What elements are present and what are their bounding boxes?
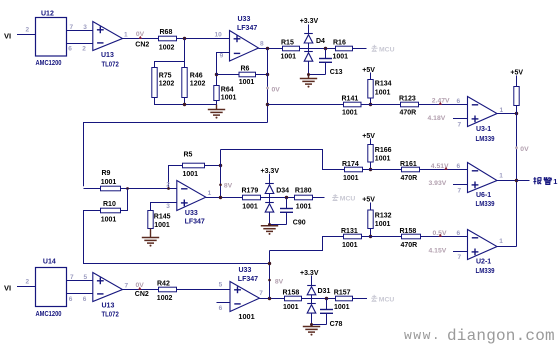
- svg-text:R161: R161: [400, 161, 417, 168]
- svg-text:MCU: MCU: [379, 46, 395, 53]
- op-amp U33 LF347 second: [177, 181, 206, 211]
- wire node to R141: [266, 103, 269, 106]
- resistor pull-up: [514, 87, 519, 106]
- svg-text:1001: 1001: [334, 304, 350, 311]
- wire stub pin7 4.15V: [453, 251, 468, 253]
- chip U12 AMC1200: [36, 18, 67, 57]
- wire stub pin7 4.18V: [453, 118, 468, 120]
- resistor R6: [239, 72, 256, 77]
- resistor R157: [336, 296, 353, 301]
- diode D31 upper: [307, 286, 316, 295]
- svg-text:R15: R15: [281, 39, 294, 46]
- svg-text:U3-1: U3-1: [476, 126, 491, 133]
- svg-text:MCU: MCU: [379, 296, 395, 303]
- svg-text:D4: D4: [316, 38, 325, 45]
- svg-text:6: 6: [83, 296, 87, 303]
- resistor R158 bottom: [285, 296, 302, 301]
- svg-text:1001: 1001: [154, 222, 170, 229]
- svg-text:LF347: LF347: [238, 276, 258, 283]
- wire junction to R161: [363, 169, 402, 171]
- svg-text:VI: VI: [4, 32, 11, 41]
- svg-text:diangon.com: diangon.com: [447, 327, 555, 345]
- svg-text:R179: R179: [242, 188, 259, 195]
- svg-text:5: 5: [219, 281, 223, 288]
- wire U12 pin6 to U13 pin2: [67, 43, 94, 45]
- wire U3-1 output: [497, 113, 517, 115]
- resistor R180: [295, 195, 313, 200]
- svg-text:+5V: +5V: [362, 133, 375, 140]
- svg-text:CN2: CN2: [135, 41, 149, 48]
- svg-text:1001: 1001: [242, 203, 258, 210]
- wire R158 to clamp node: [302, 298, 336, 300]
- svg-text:2: 2: [26, 26, 30, 33]
- wire R10 right up to R9 node: [121, 189, 128, 211]
- wire stub pin7 3.93V: [453, 184, 468, 186]
- svg-text:10: 10: [215, 32, 223, 39]
- svg-text:AMC1200: AMC1200: [36, 311, 62, 318]
- svg-text:3: 3: [166, 203, 170, 210]
- wire pin6 stub: [217, 302, 231, 304]
- svg-text:7: 7: [458, 187, 462, 194]
- svg-text:470R: 470R: [401, 175, 418, 182]
- svg-text:R158: R158: [400, 228, 417, 235]
- label to-MCU row2: [332, 194, 338, 200]
- wire U13 output to R42: [123, 289, 159, 291]
- resistor R158 470R: [402, 234, 421, 239]
- diode D34 upper: [265, 184, 274, 194]
- diode D4 lower: [304, 52, 313, 62]
- junction node A: [183, 37, 186, 40]
- svg-text:1001: 1001: [221, 95, 237, 102]
- wire from bottom stage to row3: [270, 237, 344, 251]
- wire pull-up to output: [516, 106, 518, 114]
- svg-text:LM339: LM339: [476, 268, 495, 275]
- svg-text:1001: 1001: [183, 171, 199, 178]
- wire R158 to U2-1 pin6: [421, 236, 468, 238]
- wire to alarm output: [517, 180, 530, 182]
- svg-text:7: 7: [458, 254, 462, 261]
- svg-text:7: 7: [70, 24, 74, 31]
- svg-text:D34: D34: [276, 187, 289, 194]
- capacitor C78: [325, 297, 328, 300]
- wire R179 to clamp node: [261, 197, 295, 199]
- svg-text:1: 1: [500, 107, 504, 114]
- wire R6 to output node: [256, 74, 268, 76]
- svg-text:1001: 1001: [343, 175, 359, 182]
- svg-text:R157: R157: [334, 289, 351, 296]
- wire down to R46: [184, 39, 186, 68]
- svg-text:U13: U13: [101, 52, 114, 59]
- svg-text:R16: R16: [333, 39, 346, 46]
- comparator U2-1 LM339: [468, 230, 498, 260]
- wire U33 output to R179: [206, 197, 243, 199]
- wire R166 to row: [370, 162, 372, 170]
- wire R68 to U33 pin10: [177, 38, 230, 40]
- svg-text:6: 6: [457, 230, 461, 237]
- svg-text:470R: 470R: [401, 242, 418, 249]
- svg-text:R141: R141: [342, 96, 359, 103]
- svg-text:R68: R68: [160, 29, 173, 36]
- op-amp U13 TL072 top: [93, 22, 123, 51]
- wire junction to R123: [361, 104, 401, 106]
- svg-text:4.15V: 4.15V: [429, 247, 447, 254]
- wire U33 pin9 stub: [217, 53, 230, 75]
- svg-text:R132: R132: [375, 212, 392, 219]
- resistor R134: [368, 80, 373, 99]
- wire to comparator row2 dogleg: [221, 150, 345, 170]
- svg-text:+3.3V: +3.3V: [300, 18, 319, 25]
- svg-text:1001: 1001: [375, 156, 391, 163]
- wire R75 branch: [155, 62, 185, 68]
- wire R42 to U33 pin5: [177, 289, 231, 291]
- op-amp U33 LF347 fourth: [230, 282, 259, 312]
- svg-text:3.93V: 3.93V: [429, 180, 447, 187]
- wire diode to ground: [269, 212, 271, 224]
- svg-text:LM339: LM339: [476, 201, 495, 208]
- wire R10 left down to bottom feedback: [84, 211, 270, 264]
- wire top horizontal feedback from 0V node: [84, 123, 268, 187]
- svg-text:2: 2: [166, 182, 170, 189]
- svg-text:LF347: LF347: [237, 25, 257, 32]
- wire R9 left: [84, 188, 101, 190]
- resistor R16: [336, 46, 353, 51]
- svg-text:8: 8: [260, 41, 264, 48]
- resistor R64: [214, 86, 219, 101]
- resistor R141: [344, 102, 362, 107]
- svg-text:R134: R134: [375, 81, 392, 88]
- svg-text:1001: 1001: [101, 216, 117, 223]
- svg-text:R10: R10: [103, 201, 116, 208]
- wire R9 right to minus input: [121, 188, 177, 190]
- svg-text:470R: 470R: [400, 110, 417, 117]
- svg-text:U6-1: U6-1: [476, 192, 491, 199]
- svg-text:6: 6: [457, 98, 461, 105]
- ground: [150, 229, 152, 238]
- wire U14 pin7 to U13 pin5: [67, 280, 94, 282]
- ground: [269, 225, 271, 226]
- svg-text:U2-1: U2-1: [476, 259, 491, 266]
- label to-MCU row3: [371, 295, 377, 301]
- svg-text:1002: 1002: [157, 295, 173, 302]
- svg-text:U12: U12: [41, 10, 54, 17]
- wire R5 to output node: [205, 165, 221, 167]
- svg-text:+3.3V: +3.3V: [300, 270, 319, 277]
- wire junction to R158: [362, 236, 402, 238]
- svg-text:1001: 1001: [239, 79, 255, 86]
- svg-text:7: 7: [125, 282, 129, 289]
- svg-text:U13: U13: [102, 302, 115, 309]
- comparator U6-1 LM339: [468, 163, 498, 193]
- diode D34 lower: [265, 203, 274, 213]
- resistor R75: [152, 68, 157, 98]
- resistor R123: [401, 102, 419, 107]
- svg-text:6: 6: [457, 163, 461, 170]
- net 0V vertical from U33 output: [267, 49, 269, 123]
- svg-text:C78: C78: [330, 321, 343, 328]
- svg-text:7: 7: [259, 290, 263, 297]
- ground: [308, 75, 310, 79]
- wire R134 to row: [370, 98, 372, 105]
- resistor R5 feedback: [169, 166, 183, 189]
- label alarm BaoJing1: [533, 177, 551, 184]
- svg-text:3: 3: [83, 24, 87, 31]
- svg-text:1001: 1001: [283, 304, 299, 311]
- svg-text:LM339: LM339: [476, 136, 495, 143]
- svg-text:MCU: MCU: [340, 196, 356, 203]
- wire to MCU row3: [353, 298, 368, 300]
- svg-text:1: 1: [499, 238, 503, 245]
- svg-text:R42: R42: [157, 280, 170, 287]
- svg-text:LF347: LF347: [185, 219, 205, 226]
- svg-text:R131: R131: [341, 228, 358, 235]
- wire resistor bottoms to ground rail: [155, 98, 217, 105]
- wire to MCU row2: [313, 197, 325, 199]
- svg-text:U33: U33: [238, 16, 251, 23]
- op-amp U13 TL072 bottom: [93, 273, 123, 302]
- wire diode to ground: [311, 313, 313, 324]
- wire to R6: [217, 74, 240, 76]
- resistor R166: [368, 145, 373, 163]
- resistor R46: [182, 68, 187, 98]
- resistor R68: [159, 36, 177, 41]
- svg-text:U14: U14: [43, 258, 56, 265]
- resistor R10: [101, 208, 121, 213]
- svg-text:6: 6: [219, 305, 223, 312]
- svg-text:1001: 1001: [238, 312, 254, 321]
- wire R64 bottom: [216, 101, 218, 105]
- svg-text:6: 6: [69, 296, 73, 303]
- svg-text:R174: R174: [342, 161, 359, 168]
- svg-text:R64: R64: [221, 87, 234, 94]
- svg-text:CN2: CN2: [135, 291, 149, 298]
- svg-text:1001: 1001: [101, 179, 117, 186]
- svg-text:C90: C90: [293, 220, 306, 227]
- svg-text:TL072: TL072: [102, 311, 119, 318]
- svg-text:AMC1200: AMC1200: [36, 60, 62, 67]
- svg-text:D31: D31: [318, 288, 331, 295]
- svg-text:1001: 1001: [281, 53, 297, 60]
- wire U14 pin6 to U13 pin6: [67, 293, 94, 295]
- svg-text:R180: R180: [295, 187, 312, 194]
- svg-text:2: 2: [26, 279, 30, 286]
- wire R132 to row: [370, 229, 372, 237]
- svg-text:0V: 0V: [520, 146, 529, 153]
- wire R64 top to R6 row: [216, 75, 218, 86]
- svg-text:R123: R123: [399, 96, 416, 103]
- svg-text:5: 5: [84, 274, 88, 281]
- svg-text:1001: 1001: [375, 221, 391, 228]
- svg-text:1: 1: [499, 172, 503, 179]
- diode D31 lower: [307, 304, 316, 314]
- svg-text:1001: 1001: [342, 110, 358, 117]
- svg-text:1001: 1001: [342, 242, 358, 249]
- net 8V bottom vertical: [269, 251, 271, 299]
- svg-text:www.: www.: [404, 328, 441, 343]
- svg-text:R158: R158: [283, 289, 300, 296]
- resistor R179: [243, 195, 261, 200]
- svg-text:U33: U33: [239, 267, 252, 274]
- svg-text:8V: 8V: [224, 183, 233, 190]
- svg-text:1002: 1002: [159, 44, 175, 51]
- resistor R145: [148, 211, 153, 229]
- resistor R131: [344, 234, 362, 239]
- svg-text:R145: R145: [154, 214, 171, 221]
- wire U12 pin7 to U13 pin3: [67, 30, 94, 32]
- svg-text:7: 7: [458, 122, 462, 129]
- svg-text:TL072: TL072: [102, 61, 119, 68]
- wire U6-1 output to bus: [497, 180, 517, 182]
- svg-text:1001: 1001: [333, 53, 349, 60]
- svg-text:R46: R46: [190, 73, 203, 80]
- wire U33 output: [259, 48, 283, 50]
- svg-text:9: 9: [220, 53, 224, 60]
- svg-text:C13: C13: [330, 69, 343, 76]
- wire R15 to clamp node: [300, 48, 336, 50]
- svg-text:1001: 1001: [296, 203, 312, 210]
- svg-text:R9: R9: [102, 170, 111, 177]
- svg-text:1202: 1202: [159, 81, 175, 88]
- svg-text:R5: R5: [184, 152, 193, 159]
- svg-text:+5V: +5V: [362, 67, 375, 74]
- wire U33 output to R158: [259, 298, 284, 300]
- svg-text:1202: 1202: [190, 81, 206, 88]
- resistor R132: [368, 210, 373, 229]
- wire U13 output to R68: [123, 38, 159, 40]
- resistor R161: [402, 167, 420, 172]
- resistor R174: [345, 167, 363, 172]
- capacitor C90: [285, 196, 288, 199]
- capacitor C13: [324, 47, 327, 50]
- svg-text:4.18V: 4.18V: [428, 115, 446, 122]
- svg-text:1: 1: [553, 177, 557, 186]
- svg-text:1: 1: [208, 190, 212, 197]
- svg-text:R166: R166: [375, 147, 392, 154]
- wire output node vertical: [220, 150, 222, 198]
- svg-text:+5V: +5V: [362, 197, 375, 204]
- wire diode bottom to ground: [308, 61, 310, 74]
- wire U2-1 output to bus: [497, 246, 517, 248]
- svg-text:8V: 8V: [275, 278, 284, 285]
- ground: [216, 105, 218, 110]
- svg-text:VI: VI: [4, 284, 11, 293]
- wire to MCU row1: [353, 48, 367, 50]
- svg-text:1: 1: [124, 31, 128, 38]
- diode D4 upper: [304, 34, 313, 44]
- net output bus vertical: [516, 114, 518, 247]
- resistor R15: [283, 46, 300, 51]
- svg-text:2: 2: [82, 46, 86, 53]
- label to-MCU row1: [371, 45, 377, 51]
- comparator U3-1 LM339: [468, 97, 498, 127]
- svg-text:7: 7: [70, 274, 74, 281]
- chip U14 AMC1200: [36, 268, 67, 307]
- svg-text:0V: 0V: [272, 87, 281, 94]
- svg-text:6: 6: [68, 46, 72, 53]
- wire R123 to U3-1 pin6: [419, 104, 468, 106]
- svg-text:R75: R75: [159, 73, 172, 80]
- op-amp U33 LF347 first: [230, 31, 259, 62]
- svg-text:U33: U33: [185, 210, 198, 217]
- ground: [311, 325, 313, 327]
- wire R161 to U6-1 pin6: [420, 169, 468, 171]
- resistor R42: [159, 287, 177, 292]
- svg-text:R6: R6: [241, 65, 250, 72]
- wire plus input to R145: [151, 203, 177, 211]
- resistor R9: [101, 186, 121, 191]
- svg-text:1001: 1001: [375, 90, 391, 97]
